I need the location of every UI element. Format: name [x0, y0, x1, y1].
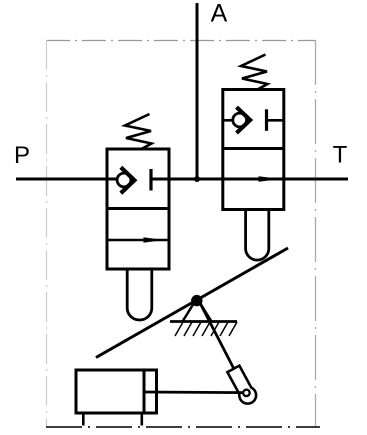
check-valve ball (circle) of V2	[233, 113, 247, 127]
wire: vertical line port A	[196, 3, 199, 181]
cylinder mounting leg right	[141, 413, 144, 426]
check-valve chevron of V2	[237, 107, 251, 133]
plunger (tappet) of V1	[127, 269, 152, 320]
plunger (tappet) of V2	[246, 210, 269, 261]
enclosure dash-dot border right	[315, 40, 317, 427]
lever (rocker arm)	[96, 248, 288, 358]
svg-text:A: A	[211, 0, 228, 28]
valve V1 body (left, plunger-operated seat valve)	[107, 149, 169, 269]
svg-text:T: T	[333, 142, 348, 169]
seat bar of V2	[265, 109, 268, 131]
wire: horizontal line P to check valve V1	[16, 178, 118, 181]
check-valve ball (circle) of V1	[117, 173, 131, 187]
flow arrow on T line inside V2 lower cell	[259, 176, 282, 182]
svg-text:P: P	[14, 142, 30, 169]
seat line of V2	[267, 119, 284, 122]
pivot support triangle right leg	[200, 303, 212, 322]
spring of valve V2	[241, 55, 268, 91]
pivot pin (filled circle)	[191, 295, 202, 306]
cylinder mounting leg left	[82, 413, 85, 426]
roller pin	[242, 389, 251, 398]
valve V2 body (right, plunger-operated seat valve)	[223, 90, 284, 210]
piston rod wire to roller	[144, 391, 243, 394]
node: junction of A line and P-T line	[194, 176, 200, 182]
enclosure dash-dot border left	[46, 40, 48, 427]
roller slide block	[226, 365, 259, 407]
cylinder piston	[143, 370, 146, 413]
wire: entry stub into V2 upper cell	[223, 119, 234, 122]
enclosure dash-dot border bottom	[46, 426, 320, 428]
check-valve chevron of V1	[121, 167, 135, 193]
flow path arrow in lower cell of V1	[107, 237, 169, 243]
pivot support triangle left leg	[183, 303, 195, 322]
seat bar of V1	[149, 169, 152, 191]
spring of valve V1	[125, 114, 152, 150]
ground hatching	[175, 322, 237, 336]
link from pivot to roller slide	[200, 302, 234, 369]
cylinder body	[76, 370, 157, 413]
ground line	[170, 320, 237, 323]
enclosure dash-dot border top	[46, 40, 316, 42]
wire: horizontal line V1 seat to T	[151, 178, 348, 181]
